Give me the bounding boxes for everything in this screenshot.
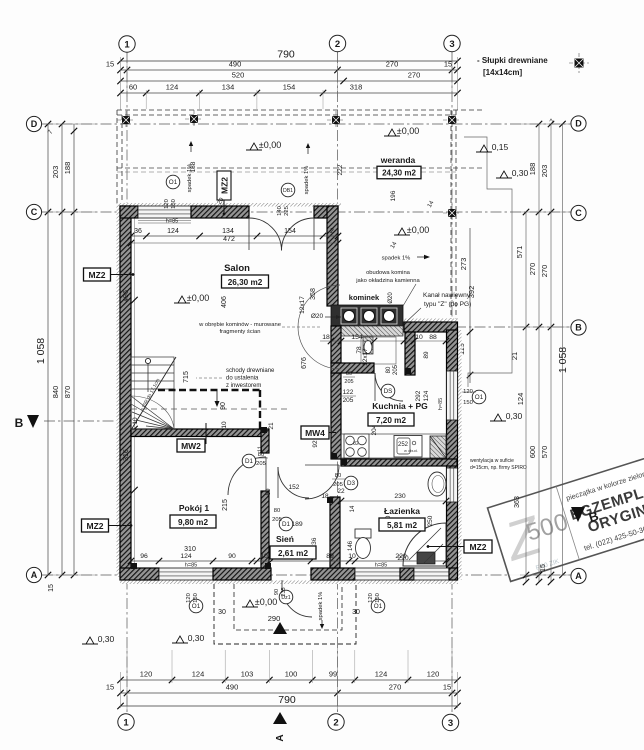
svg-text:122: 122 [343, 389, 354, 396]
svg-text:80: 80 [274, 508, 280, 514]
svg-text:18: 18 [322, 334, 330, 341]
svg-text:D1: D1 [245, 458, 254, 465]
svg-text:235: 235 [281, 587, 287, 596]
svg-text:Sień: Sień [276, 534, 294, 544]
svg-text:472: 472 [223, 236, 235, 243]
svg-text:120: 120 [368, 593, 374, 603]
svg-text:90: 90 [220, 402, 227, 410]
svg-text:12x17: 12x17 [362, 348, 369, 366]
svg-text:MW2: MW2 [181, 441, 201, 451]
svg-text:26,30 m2: 26,30 m2 [228, 278, 263, 287]
svg-text:O1: O1 [475, 394, 484, 401]
svg-text:270: 270 [386, 60, 399, 69]
svg-text:[14x14cm]: [14x14cm] [483, 68, 522, 77]
svg-text:89: 89 [423, 351, 430, 359]
svg-text:15: 15 [48, 584, 55, 592]
svg-text:Ø20: Ø20 [388, 292, 394, 304]
svg-text:124: 124 [180, 553, 192, 560]
svg-text:1: 1 [124, 39, 130, 50]
svg-text:270: 270 [540, 265, 549, 278]
svg-text:406: 406 [221, 296, 228, 308]
svg-text:±0,00: ±0,00 [397, 126, 419, 136]
svg-text:weranda: weranda [380, 155, 416, 165]
svg-text:310: 310 [184, 546, 196, 553]
svg-text:99: 99 [329, 670, 337, 679]
svg-text:15: 15 [106, 683, 114, 692]
svg-text:205: 205 [333, 482, 343, 488]
svg-text:120: 120 [140, 670, 153, 679]
svg-text:15: 15 [106, 60, 114, 69]
svg-text:88: 88 [429, 334, 437, 341]
svg-text:273: 273 [459, 258, 468, 271]
svg-text:10: 10 [132, 417, 139, 425]
svg-text:790: 790 [278, 694, 296, 706]
svg-text:D: D [31, 119, 38, 129]
svg-text:±0,00: ±0,00 [259, 140, 281, 150]
svg-text:225: 225 [284, 206, 290, 216]
svg-text:0,30: 0,30 [506, 411, 523, 421]
svg-text:D3: D3 [347, 480, 356, 487]
svg-text:290: 290 [268, 614, 281, 623]
svg-text:14: 14 [350, 505, 356, 512]
svg-text:69: 69 [265, 488, 272, 496]
svg-text:715: 715 [183, 371, 190, 383]
svg-text:C: C [31, 207, 38, 217]
svg-text:205: 205 [272, 517, 282, 523]
svg-text:152: 152 [289, 484, 300, 491]
svg-text:103: 103 [241, 670, 254, 679]
svg-text:D1: D1 [282, 521, 291, 528]
svg-text:fragmenty ścian: fragmenty ścian [220, 329, 261, 335]
svg-text:676: 676 [301, 357, 308, 369]
svg-text:15: 15 [444, 60, 452, 69]
svg-text:MZ2: MZ2 [87, 521, 104, 531]
svg-text:D: D [575, 119, 582, 129]
svg-text:h=85: h=85 [185, 563, 197, 569]
svg-text:O1: O1 [169, 179, 178, 186]
svg-text:363: 363 [514, 496, 521, 508]
svg-text:Kanał nawiewny: Kanał nawiewny [423, 292, 471, 299]
svg-text:124: 124 [516, 393, 525, 406]
svg-text:spadek 1%: spadek 1% [382, 256, 411, 262]
svg-text:222: 222 [337, 164, 344, 175]
svg-text:30: 30 [218, 609, 226, 616]
svg-text:A: A [31, 570, 38, 580]
svg-text:80: 80 [346, 371, 352, 377]
svg-text:220: 220 [397, 555, 409, 562]
svg-text:146: 146 [348, 540, 354, 551]
svg-text:do ustalenia: do ustalenia [226, 376, 259, 382]
svg-text:571: 571 [515, 246, 524, 259]
svg-text:80: 80 [335, 473, 341, 479]
svg-text:0,15: 0,15 [492, 142, 509, 152]
svg-text:154: 154 [283, 83, 296, 92]
svg-text:w obrębie kominów - murowane: w obrębie kominów - murowane [198, 322, 281, 328]
svg-text:154: 154 [351, 334, 363, 341]
svg-text:270: 270 [389, 683, 402, 692]
svg-text:205: 205 [393, 364, 399, 375]
svg-text:205: 205 [256, 461, 266, 467]
svg-text:typu "Z" (do PG): typu "Z" (do PG) [424, 301, 471, 308]
svg-text:±0,00: ±0,00 [187, 293, 209, 303]
svg-text:124: 124 [423, 390, 430, 401]
svg-text:154: 154 [284, 228, 296, 235]
svg-text:B: B [15, 416, 24, 430]
svg-text:7,20 m2: 7,20 m2 [376, 416, 406, 425]
svg-text:150: 150 [463, 400, 473, 406]
svg-text:318: 318 [350, 83, 363, 92]
svg-text:89: 89 [326, 553, 334, 560]
svg-text:1: 1 [123, 717, 129, 728]
svg-text:DS: DS [384, 388, 393, 395]
svg-text:2: 2 [330, 228, 334, 235]
svg-text:d=15cm, np. firmy SPIRO: d=15cm, np. firmy SPIRO [470, 465, 527, 471]
svg-text:134: 134 [222, 83, 235, 92]
svg-text:MZ2: MZ2 [89, 270, 106, 280]
svg-text:60: 60 [129, 83, 137, 92]
svg-text:h=85: h=85 [438, 398, 444, 410]
svg-text:5,81 m2: 5,81 m2 [387, 521, 417, 530]
svg-text:205: 205 [343, 397, 354, 404]
svg-text:90: 90 [274, 589, 280, 595]
svg-text:±0,00: ±0,00 [407, 225, 429, 235]
svg-text:124: 124 [192, 670, 205, 679]
svg-text:188: 188 [190, 161, 197, 172]
svg-text:9,80 m2: 9,80 m2 [178, 518, 208, 527]
svg-text:10: 10 [260, 553, 268, 560]
svg-text:196: 196 [390, 190, 397, 201]
svg-text:15: 15 [443, 683, 451, 692]
svg-text:0,30: 0,30 [512, 168, 529, 178]
svg-text:496: 496 [123, 290, 130, 302]
svg-text:570: 570 [540, 446, 549, 459]
svg-text:124: 124 [375, 670, 388, 679]
svg-text:230: 230 [394, 493, 406, 500]
svg-text:840: 840 [51, 386, 60, 399]
svg-text:15: 15 [540, 564, 547, 572]
svg-text:jako okładzina kamienna: jako okładzina kamienna [355, 278, 420, 284]
svg-text:h=85: h=85 [166, 219, 178, 225]
svg-text:80: 80 [258, 452, 264, 458]
svg-text:21: 21 [268, 422, 275, 430]
svg-text:kominek: kominek [349, 293, 380, 302]
svg-text:215: 215 [222, 499, 229, 511]
svg-text:Ø20: Ø20 [311, 313, 324, 320]
svg-text:120: 120 [164, 199, 170, 209]
svg-text:12x17: 12x17 [299, 296, 306, 314]
svg-text:188: 188 [63, 162, 72, 175]
svg-text:spadek 1%: spadek 1% [304, 166, 310, 195]
svg-text:3: 3 [449, 39, 454, 50]
svg-text:Kuchnia + PG: Kuchnia + PG [372, 401, 428, 411]
svg-text:10: 10 [348, 553, 356, 560]
svg-text:h=85: h=85 [375, 563, 387, 569]
svg-text:80: 80 [386, 366, 392, 373]
svg-text:790: 790 [277, 49, 295, 61]
svg-text:A: A [575, 571, 582, 581]
svg-text:870: 870 [63, 386, 72, 399]
svg-text:MW4: MW4 [305, 428, 325, 438]
svg-text:520: 520 [232, 71, 245, 80]
svg-text:3: 3 [448, 718, 453, 729]
svg-text:10: 10 [415, 334, 423, 341]
svg-text:24,30 m2: 24,30 m2 [382, 169, 416, 178]
svg-text:Łazienka: Łazienka [384, 506, 420, 516]
svg-text:1 058: 1 058 [557, 347, 569, 373]
svg-text:140: 140 [277, 206, 283, 216]
svg-text:±0,00: ±0,00 [255, 597, 277, 607]
svg-text:DB1: DB1 [283, 188, 293, 194]
svg-text:MZ2: MZ2 [220, 177, 230, 194]
svg-text:270: 270 [408, 71, 421, 80]
svg-text:2: 2 [335, 39, 340, 50]
svg-text:schody drewniane: schody drewniane [226, 368, 275, 374]
svg-text:MZ2: MZ2 [470, 542, 487, 552]
svg-text:36: 36 [134, 228, 142, 235]
svg-text:O1: O1 [192, 603, 201, 610]
svg-text:124: 124 [167, 228, 179, 235]
svg-text:wentylacja w suficie: wentylacja w suficie [470, 458, 514, 464]
svg-text:30: 30 [352, 609, 360, 616]
svg-text:100: 100 [285, 670, 298, 679]
svg-text:1 058: 1 058 [35, 338, 47, 364]
svg-text:188: 188 [528, 163, 537, 176]
svg-text:10: 10 [221, 421, 228, 429]
svg-text:203: 203 [540, 165, 549, 178]
svg-text:92: 92 [312, 440, 319, 448]
svg-text:250: 250 [427, 515, 434, 526]
svg-text:150: 150 [375, 593, 381, 603]
svg-text:292: 292 [415, 390, 422, 401]
svg-text:Pokój 1: Pokój 1 [179, 503, 210, 513]
svg-text:2,61 m2: 2,61 m2 [278, 549, 308, 558]
svg-text:490: 490 [226, 683, 239, 692]
svg-text:150: 150 [171, 199, 177, 209]
svg-text:134: 134 [222, 228, 234, 235]
svg-text:96: 96 [140, 553, 148, 560]
svg-text:490: 490 [229, 60, 242, 69]
svg-text:O1: O1 [374, 603, 383, 610]
svg-text:0,30: 0,30 [98, 634, 115, 644]
svg-text:B: B [575, 323, 582, 333]
svg-text:150: 150 [193, 593, 199, 603]
svg-text:Salon: Salon [224, 263, 250, 274]
svg-text:124: 124 [166, 83, 179, 92]
svg-text:21: 21 [510, 352, 519, 360]
svg-text:w obud.: w obud. [404, 448, 418, 453]
svg-text:600: 600 [528, 446, 537, 459]
svg-text:A: A [275, 734, 286, 741]
svg-text:82: 82 [353, 441, 359, 447]
svg-text:- Słupki drewniane: - Słupki drewniane [477, 56, 548, 65]
svg-text:2: 2 [333, 717, 338, 728]
svg-text:0,30: 0,30 [188, 633, 205, 643]
svg-text:316: 316 [123, 449, 130, 461]
svg-text:spadek 1%: spadek 1% [318, 592, 324, 621]
svg-text:270: 270 [528, 263, 537, 276]
svg-text:z inwestorem: z inwestorem [226, 383, 261, 389]
svg-text:120: 120 [186, 593, 192, 603]
svg-text:obudowa komina: obudowa komina [366, 270, 411, 276]
svg-text:205: 205 [344, 379, 353, 385]
svg-text:22: 22 [337, 488, 345, 495]
svg-text:C: C [575, 208, 582, 218]
svg-text:120: 120 [427, 670, 440, 679]
svg-text:358: 358 [310, 288, 317, 300]
svg-text:18: 18 [321, 493, 329, 500]
svg-text:90: 90 [228, 553, 236, 560]
svg-text:203: 203 [51, 166, 60, 179]
